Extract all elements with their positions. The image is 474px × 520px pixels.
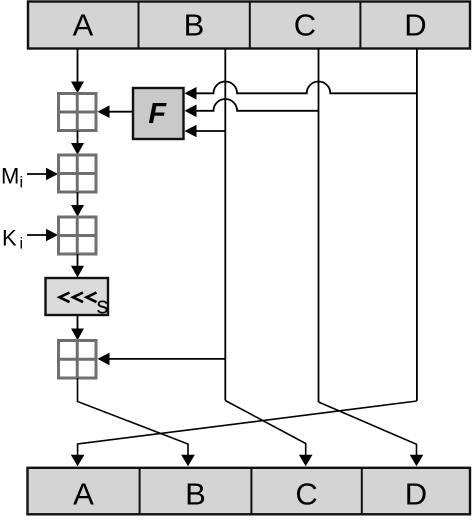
svg-text:B: B bbox=[184, 7, 205, 42]
svg-text:B: B bbox=[185, 476, 206, 511]
label Mi bbox=[1, 164, 23, 192]
svg-text:i: i bbox=[20, 235, 24, 252]
adder 2 bbox=[57, 155, 96, 192]
wire A down to adder1 bbox=[77, 49, 79, 84]
svg-text:A: A bbox=[73, 476, 94, 511]
arrowhead F into adder1 bbox=[98, 105, 110, 118]
svg-text:s: s bbox=[97, 293, 109, 320]
arrowhead into rotate box top bbox=[71, 266, 84, 278]
arrowhead into bottom A bbox=[71, 455, 85, 467]
svg-text:M: M bbox=[1, 164, 19, 189]
arrowhead B branch into adder4 bbox=[98, 353, 110, 366]
wire adder3 to rotate box bbox=[77, 254, 79, 266]
wire D diagonal to bottom A bbox=[78, 401, 417, 456]
divider B|C bottom bbox=[250, 468, 252, 515]
svg-text:C: C bbox=[294, 7, 316, 42]
register row top (A B C D) bbox=[28, 2, 470, 49]
arrowhead Ki into adder3 bbox=[46, 229, 58, 242]
arrowhead into adder3 top bbox=[71, 205, 84, 217]
wire rotate box to adder4 bbox=[77, 315, 79, 329]
arrowhead into bottom B bbox=[181, 455, 195, 467]
function box F bbox=[133, 88, 184, 139]
wire D input to F (hops over C and B) bbox=[196, 82, 417, 94]
wire B input to F bbox=[196, 130, 225, 132]
arrowhead C into F bbox=[185, 105, 197, 118]
arrowhead into bottom D bbox=[410, 455, 424, 467]
svg-text:F: F bbox=[148, 98, 167, 130]
arrowhead into bottom C bbox=[299, 455, 313, 467]
arrowhead D into F bbox=[185, 87, 197, 100]
label Ki bbox=[2, 225, 23, 252]
divider A|B bottom bbox=[139, 468, 141, 515]
svg-text:K: K bbox=[2, 225, 17, 250]
divider A|B top bbox=[138, 2, 140, 49]
svg-text:C: C bbox=[295, 476, 317, 511]
arrowhead Mi into adder2 bbox=[46, 168, 58, 181]
divider B|C top bbox=[249, 2, 251, 49]
adder 3 bbox=[57, 217, 96, 254]
svg-text:A: A bbox=[73, 7, 94, 42]
divider C|D bottom bbox=[361, 468, 363, 515]
wire adder2 to adder3 bbox=[77, 192, 79, 206]
wire B branch into adder4 bbox=[109, 358, 225, 360]
svg-text:i: i bbox=[20, 175, 24, 192]
adder 1 bbox=[57, 94, 96, 131]
divider C|D top bbox=[359, 2, 361, 49]
adder 4 bbox=[57, 341, 96, 379]
arrowhead into adder4 top bbox=[71, 329, 84, 341]
svg-text:D: D bbox=[405, 476, 427, 511]
wire C input to F (hops over B) bbox=[196, 99, 319, 111]
wire adder1 to adder2 bbox=[77, 131, 79, 145]
wire C vertical bbox=[318, 49, 320, 403]
register row bottom (A B C D) bbox=[28, 468, 471, 515]
arrowhead into adder1 top bbox=[71, 82, 84, 94]
rotate-left box <<<s bbox=[46, 278, 109, 320]
wire D vertical bbox=[416, 49, 418, 402]
arrowhead B into F bbox=[185, 125, 197, 138]
wire Ki into adder3 bbox=[27, 234, 48, 236]
wire B vertical bbox=[224, 49, 226, 401]
wire adder4 output to bottom B bbox=[78, 378, 189, 456]
wire B diagonal to bottom C bbox=[225, 401, 305, 457]
wire Mi into adder2 bbox=[27, 173, 48, 175]
wire C diagonal to bottom D bbox=[319, 402, 417, 456]
svg-text:D: D bbox=[404, 7, 426, 42]
arrowhead into adder2 top bbox=[71, 143, 84, 155]
wire F to adder1 bbox=[109, 111, 133, 113]
